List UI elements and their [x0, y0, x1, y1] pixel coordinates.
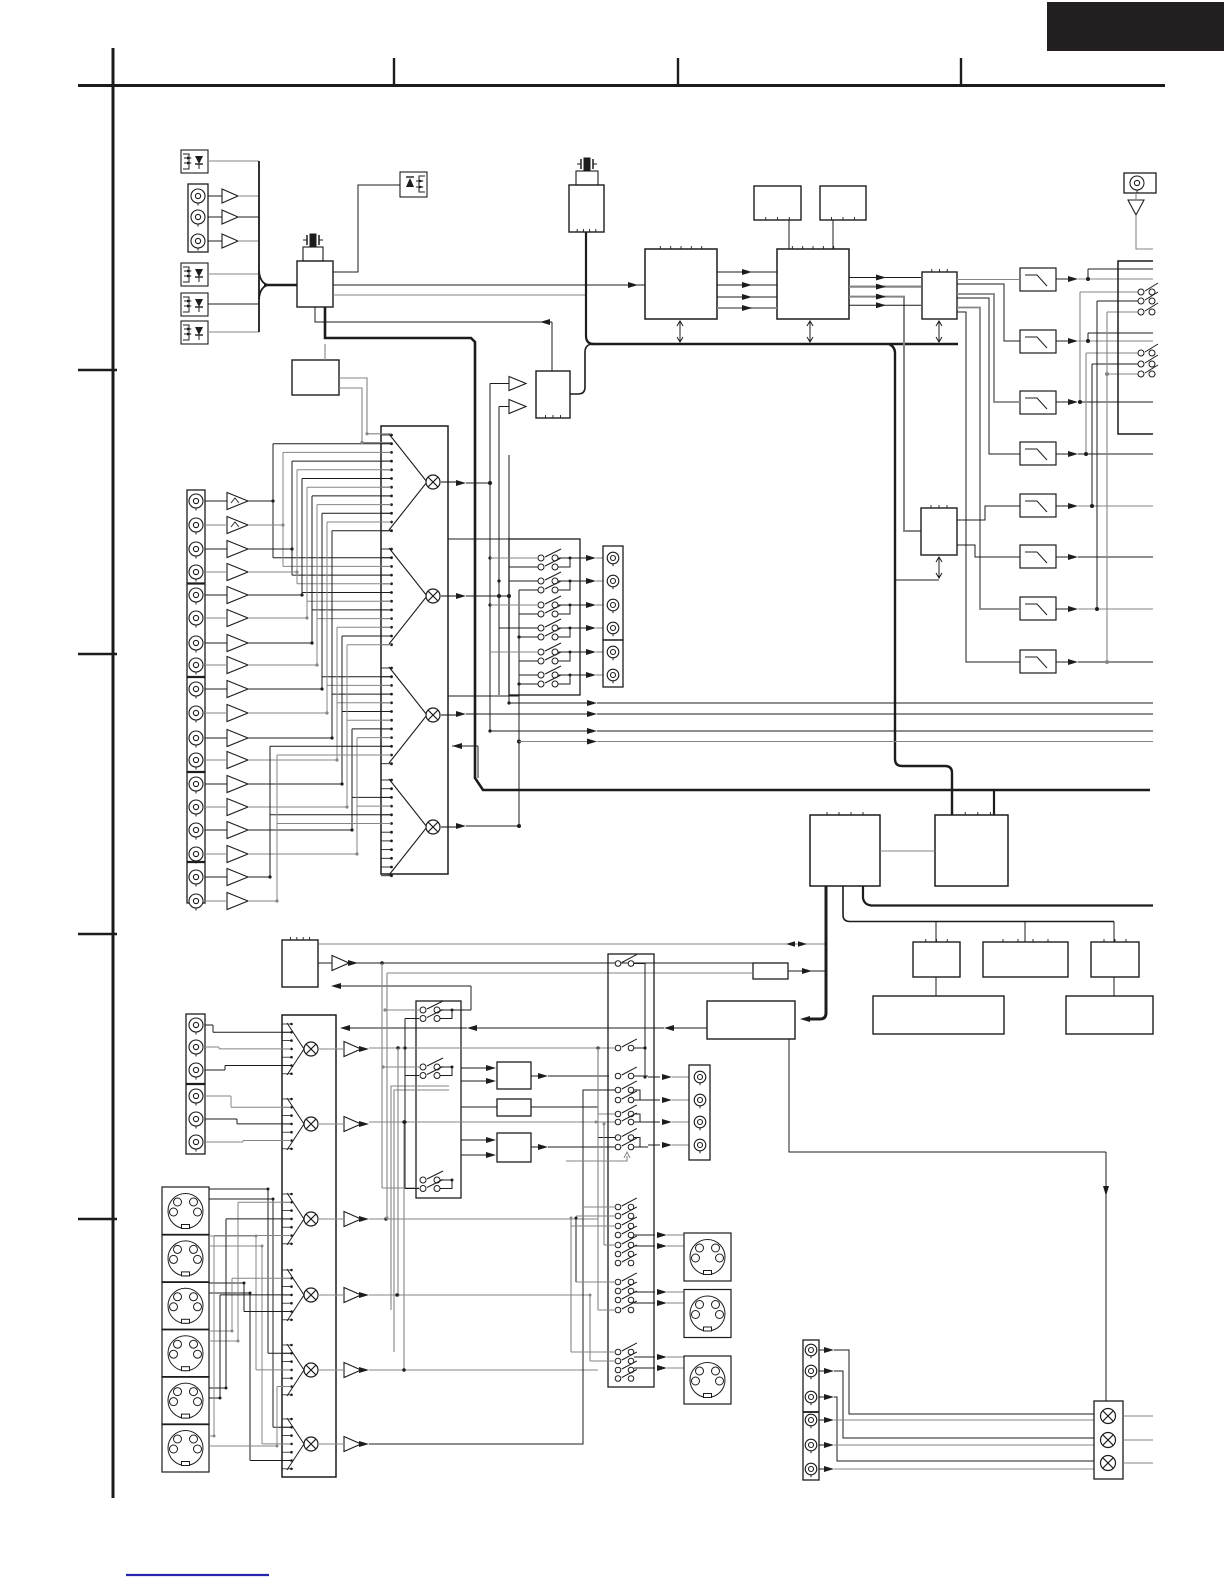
wire aout5 [834, 1444, 1094, 1446]
aux box above mux [292, 344, 339, 395]
video mixer node 6 [304, 1437, 318, 1451]
wire opto4 out [208, 331, 259, 333]
page border top rule [78, 84, 1165, 87]
S3 switch y1361 [615, 1352, 637, 1364]
wire opto2 out [208, 273, 259, 275]
matrix route jack17 [248, 746, 391, 878]
record out arrow 6 [580, 672, 603, 678]
DAC box F [935, 812, 1008, 886]
audio buffer 3 [205, 541, 248, 558]
audio out arrow 2 [819, 1368, 834, 1374]
wire auxbox out1 [339, 378, 391, 435]
record switch pair 4 [538, 619, 580, 640]
wire U2 clock down [586, 232, 594, 344]
wire DSP3-DSP4 d0 [717, 269, 777, 275]
S3 switch y1352 [615, 1343, 637, 1355]
video rec switch pair 2 [420, 1058, 454, 1079]
S3 switch y1090 [615, 1081, 637, 1093]
video rec switch box [416, 1001, 461, 1198]
low-pass filter F1 [1020, 268, 1056, 291]
vertical bus 519 [517, 590, 520, 740]
video micro box Q [707, 1001, 795, 1039]
video enhancer N2 [497, 1099, 531, 1116]
record out arrow 1 [580, 555, 603, 561]
tuner buffer [318, 956, 753, 971]
matrix route jack1 [248, 444, 391, 558]
mixer node 3 [426, 708, 440, 722]
wire aout1 [834, 1350, 1094, 1414]
S3 switch y1291 [615, 1282, 637, 1294]
output mixer 2 [1101, 1433, 1116, 1448]
wire tuner gray top [319, 941, 826, 946]
DIR receiver U1 [297, 261, 333, 307]
wire DAC to F4 [957, 298, 1020, 454]
monitor out jack panel [689, 1065, 710, 1160]
wire mux right jog [448, 455, 509, 539]
wire Q down ctl [789, 1039, 1109, 1401]
vertical bus 499 [497, 407, 500, 696]
headphone amp triangle [1128, 193, 1153, 249]
audio buffer 15 [205, 822, 248, 839]
SDRAM box A [754, 186, 801, 220]
audio out arrow 4 [819, 1417, 834, 1423]
wire aout6 [834, 1468, 1094, 1470]
video mixer triangle 2 [287, 1098, 304, 1150]
audio buffer 7 [205, 635, 248, 652]
S3 svideo out 1 [634, 1232, 684, 1249]
mixer triangle 4 [389, 779, 427, 875]
wire DIR1 data to DSP [333, 282, 645, 288]
S3 switch y1310 [615, 1301, 637, 1313]
audio buffer 5 [205, 587, 248, 604]
video mixer 6 stubs [282, 1418, 293, 1470]
vertical feed 394 [394, 1090, 449, 1352]
S3 svideo out 3 [634, 1354, 684, 1371]
audio out arrow 3 [819, 1394, 834, 1400]
video rec switch pair 1 [420, 1001, 454, 1022]
wire F5 output [1056, 503, 1153, 509]
top tick mark 2 [677, 58, 679, 85]
wire DSP4-DAC d0 [849, 275, 921, 281]
ctl line to video blocks [340, 1025, 707, 1031]
S3 switch y1147 [615, 1138, 637, 1150]
record switch feed 1 [490, 558, 538, 567]
crystal X2 [576, 158, 598, 186]
selector switch y312 [1138, 303, 1158, 315]
loop pair1 up [452, 1009, 471, 1011]
wire G-J [935, 977, 937, 996]
s-video out 1 [684, 1233, 731, 1281]
s-video connector 4 [162, 1329, 209, 1377]
wire DAC to F1 [957, 279, 1020, 281]
DIR receiver U2 [569, 185, 604, 232]
mixer node 4 [426, 820, 440, 834]
video route jack3 [205, 1066, 291, 1071]
video in jack panel [186, 1014, 205, 1154]
thick serial bus from DIR1 [325, 307, 1150, 790]
audio buffer 16 [205, 846, 248, 863]
matrix route jack5 [248, 479, 391, 597]
bus taps G H I [936, 922, 1114, 943]
wire mux right jog2 [448, 695, 519, 697]
video buffer 2 [318, 1117, 369, 1132]
mixer node 2 [426, 589, 440, 603]
video mixer triangle 5 [287, 1344, 304, 1396]
N1 output [531, 1073, 609, 1079]
matrix route jack4 [248, 470, 391, 584]
video line 1295 [369, 1293, 590, 1296]
wire coax3 [208, 240, 259, 242]
audio out arrow 5 [819, 1442, 834, 1448]
wire F2 output [1056, 338, 1153, 344]
S3 left feed verticals [570, 1047, 617, 1361]
video enhancer N3 [497, 1133, 531, 1162]
branch F5 to sel [1090, 364, 1138, 508]
video route jack1 [205, 1025, 291, 1032]
record switch pair 6 [538, 666, 580, 687]
s-video route 1 [209, 1198, 291, 1428]
S3 switch y1378 [615, 1370, 637, 1382]
record switch feed 5 [490, 652, 538, 661]
audio out jack panel [803, 1340, 819, 1480]
audio input jacks [189, 494, 203, 911]
DAI buffer 1 [490, 377, 526, 391]
vertical feed 391 [391, 1086, 449, 1310]
video in jacks [189, 1018, 203, 1152]
S3 switch y1137 [615, 1129, 637, 1141]
audio buffer 12 [205, 752, 248, 769]
video rec switch pair 3 [420, 1171, 454, 1192]
s-video route 5 [209, 1295, 291, 1400]
matrix route jack18 [248, 755, 391, 903]
low-pass filter F8 [1020, 650, 1056, 673]
crystal X1 [303, 234, 323, 262]
video line 1219 [369, 1217, 598, 1220]
matrix route jack6 [248, 487, 391, 619]
DAI buffer 2 [499, 400, 526, 414]
optical out [400, 172, 427, 197]
wire DAI control to DIR1 [315, 307, 552, 371]
matrix route jack9 [248, 513, 391, 690]
wire DSP4-DAC d1 [849, 284, 921, 290]
coax buffer 2 [222, 210, 238, 224]
record switch pair 1 [538, 549, 580, 570]
video buffer 5 [318, 1363, 369, 1378]
record out arrow 4 [580, 625, 603, 631]
left tick y654 [78, 653, 117, 655]
s-video route 3 [209, 1292, 291, 1461]
wire A down [788, 220, 790, 249]
coax buffer 1 [222, 189, 238, 203]
S3 monitor out 2 [648, 1097, 689, 1103]
wire P out [788, 968, 826, 974]
low-pass filter F5 [1020, 494, 1056, 517]
record out jack panel [603, 546, 623, 687]
wire F4 output [1056, 451, 1153, 457]
record out jacks [607, 552, 619, 683]
DSP U4 [777, 246, 849, 319]
micro bus from E [800, 886, 826, 1022]
wire F8 output [1056, 659, 1153, 665]
matrix route jack14 [248, 645, 391, 809]
monitor out jacks [694, 1071, 706, 1153]
record switch pair 3 [538, 596, 580, 617]
long line rec out 1 [507, 695, 1153, 706]
video mixer 2 stubs [282, 1098, 293, 1150]
S3 switch y1235 [615, 1226, 637, 1238]
wire I-K [1113, 977, 1115, 996]
updown arrow DSP U3 [677, 321, 683, 342]
S3 switch y1207 [615, 1198, 637, 1210]
mixer triangle 2 [389, 548, 427, 644]
video route jack6 [205, 1141, 291, 1143]
low-pass filter F3 [1020, 391, 1056, 414]
mixer node 1 [426, 475, 440, 489]
thick bus horizontal [591, 343, 958, 346]
wire mixer2 out [441, 593, 511, 599]
long line rec out 3 [519, 739, 1153, 745]
wire E down bus [843, 886, 1114, 922]
mixer triangle 1 [389, 434, 427, 530]
footer blue rule [126, 1574, 269, 1576]
s-video out 2 [684, 1290, 731, 1338]
S3 switch y1254 [615, 1245, 637, 1257]
wire DSP3-DSP4 d1 [717, 282, 777, 288]
video mixer 3 stubs [282, 1193, 293, 1245]
record switch pair 2 [538, 572, 580, 593]
box H [983, 939, 1068, 977]
wire to F8 [957, 312, 1020, 662]
wire auxbox out2 [339, 388, 391, 444]
audio buffer 6 [205, 610, 248, 627]
s-video connector 3 [162, 1282, 209, 1330]
box G [913, 939, 960, 977]
record switch feed 6 [519, 675, 538, 684]
branch F4 to sel [1084, 353, 1138, 456]
video route jack2 [205, 1047, 291, 1049]
optical in 3 [181, 293, 208, 316]
output mixer 3 [1101, 1456, 1116, 1471]
bus branch down [889, 344, 952, 815]
optical in 1 [181, 150, 208, 173]
selector switch y301 [1138, 292, 1158, 304]
s-video route 3 [209, 1282, 291, 1312]
wire coax1 [208, 195, 259, 197]
coax buffer 3 [222, 234, 238, 248]
S3 monitor out 1 [648, 1074, 689, 1080]
mixer 3 input stubs [381, 667, 393, 766]
S3 switch y1245 [615, 1236, 637, 1248]
matrix route jack11 [248, 531, 391, 740]
OSD box P [753, 963, 788, 979]
record out arrow 3 [580, 602, 603, 608]
video line 1444 [369, 1090, 616, 1444]
s-video connector 5 [162, 1377, 209, 1425]
record switch feed 4 [499, 628, 538, 637]
tuner box [282, 937, 318, 987]
s-video route 6 [209, 1236, 291, 1438]
S2 feed rows [381, 1008, 419, 1188]
branch F8 to sel [1105, 312, 1138, 664]
audio buffer 8 [205, 657, 248, 674]
video mixer 5 stubs [282, 1344, 293, 1396]
audio buffer 13 [205, 776, 248, 793]
video mixer node 5 [304, 1363, 318, 1377]
s-video out 3 [684, 1356, 731, 1404]
box I [1091, 939, 1139, 977]
selector switch y374 [1138, 365, 1158, 377]
s-video route 1 [209, 1188, 291, 1354]
vertical feed 382 [382, 963, 419, 1188]
headphone jack box [1124, 173, 1156, 193]
left tick y934 [78, 933, 117, 935]
digital input collector bus [259, 161, 297, 332]
branch F2 up [1086, 333, 1153, 343]
low-pass filter F6 [1020, 545, 1056, 568]
wire DAI out [570, 344, 592, 394]
S3 svideo out 2 [634, 1289, 684, 1306]
s-video route 2 [209, 1245, 291, 1444]
audio out arrow 1 [819, 1347, 834, 1353]
s-video route 4 [209, 1278, 291, 1332]
video enhancer N1 [497, 1062, 531, 1089]
mixer 1 input stubs [381, 434, 393, 532]
box J [873, 996, 1004, 1034]
S3 monitor out 4 [648, 1142, 689, 1148]
video mixer node 2 [304, 1117, 318, 1131]
S3 collector vertical [634, 964, 648, 1079]
s-video route 6 [209, 1387, 291, 1448]
wire DIR1 aux [333, 294, 586, 296]
matrix route jack2 [248, 452, 391, 566]
flash box B [820, 186, 866, 220]
record switch feed 3 [490, 605, 538, 614]
updown arrow DAC U6 [896, 557, 942, 580]
wire opto3 out [208, 303, 259, 305]
wire DSP3-DSP4 d2 [717, 294, 777, 300]
wire B down [832, 220, 834, 249]
video line 1370 [369, 1368, 598, 1371]
wire DAC to F2 [957, 284, 1020, 341]
video route jack5 [205, 1119, 291, 1124]
low-pass filter F7 [1020, 597, 1056, 620]
wire mixer1 out [441, 480, 492, 486]
mixer triangle 3 [389, 667, 427, 763]
DAI box U8 [536, 371, 570, 418]
video mixer 1 stubs [282, 1023, 293, 1075]
mux feedback arrow [452, 743, 478, 778]
S3 switch y1048 [615, 1039, 637, 1051]
wire E-F [880, 850, 935, 852]
video selector block U9 [282, 1015, 336, 1477]
N1 inputs [461, 1065, 496, 1084]
wire DSP3-DSP4 d3 [717, 305, 777, 311]
box K [1066, 996, 1153, 1034]
audio buffer 2 [205, 517, 248, 534]
audio out arrow 6 [819, 1466, 834, 1472]
audio buffer 14 [205, 799, 248, 816]
low-pass filter F2 [1020, 330, 1056, 353]
video mixer triangle 4 [287, 1269, 304, 1321]
N2 wires [461, 1107, 616, 1138]
audio buffer 10 [205, 705, 248, 722]
record switch box [509, 539, 580, 695]
matrix route jack8 [248, 505, 391, 667]
output mixer box [1094, 1401, 1123, 1479]
wire U6 out1 to F5 [957, 506, 1020, 520]
wire F6 output [1056, 554, 1153, 560]
record out arrow 2 [580, 578, 603, 584]
audio buffer 9 [205, 681, 248, 698]
vertical bus 490 [488, 384, 491, 696]
output mixer 1 [1101, 1409, 1116, 1424]
audio buffer 1 [205, 493, 248, 510]
S3 switch y1100 [615, 1091, 637, 1103]
S3 switch y1282 [615, 1273, 637, 1285]
video mixer node 4 [304, 1288, 318, 1302]
s-video route 5 [209, 1219, 291, 1390]
mixer 2 input stubs [381, 548, 393, 647]
branch F3 to sel [1078, 292, 1138, 404]
S3 monitor out 3 [648, 1119, 689, 1125]
audio out jacks [805, 1344, 817, 1477]
wire DSP4-DAC d3 [849, 302, 921, 308]
video buffer 3 [318, 1212, 369, 1227]
video mixer triangle 6 [287, 1418, 304, 1470]
wire E out2 [863, 886, 1153, 906]
S3 mute arrow [566, 1152, 630, 1161]
video buffer 6 [318, 1437, 369, 1452]
S3 switch y1122 [615, 1113, 637, 1125]
left tick y370 [78, 369, 117, 371]
video buffer 1 [318, 1042, 369, 1057]
amp block right edge [1118, 261, 1153, 434]
DSP U3 [645, 246, 717, 319]
optical in 4 [181, 321, 208, 344]
vertical feed 387 [385, 973, 753, 1220]
matrix route jack10 [248, 522, 391, 715]
updown arrow DSP U4 [807, 321, 813, 342]
wire aout2 [834, 1371, 1094, 1438]
top tick mark 1 [393, 58, 395, 85]
optical in 2 [181, 263, 208, 286]
wire mixer4 out [441, 740, 521, 830]
N3 output [531, 1144, 616, 1150]
wire mixer3 out [441, 711, 1153, 717]
matrix route jack12 [248, 627, 391, 761]
long line rec out 2 [488, 695, 1153, 734]
S3 switch y1300 [615, 1291, 637, 1303]
wire DIR1 to optical out [333, 185, 400, 272]
S3 switch y963 [615, 955, 637, 967]
selector switch y364 [1138, 355, 1158, 367]
coaxial in jack group [188, 184, 208, 252]
bus tap to DAC F [993, 790, 995, 815]
mixer 4 input stubs [381, 779, 393, 878]
top tick mark 3 [960, 58, 962, 85]
S3 switch y1226 [615, 1217, 637, 1229]
wire aout3 [834, 1397, 1094, 1461]
S3 switch y1114 [615, 1105, 637, 1117]
audio input jack panel [187, 490, 205, 903]
left tick y1219 [78, 1218, 117, 1220]
wire opto1 out [208, 160, 259, 162]
s-video connector 2 [162, 1234, 209, 1282]
wire U6 out2 to F6 [957, 545, 1020, 557]
wire DSP4-DAC d2 [849, 294, 921, 531]
record switch feed 2 [509, 581, 538, 590]
N3 inputs [461, 1137, 496, 1158]
